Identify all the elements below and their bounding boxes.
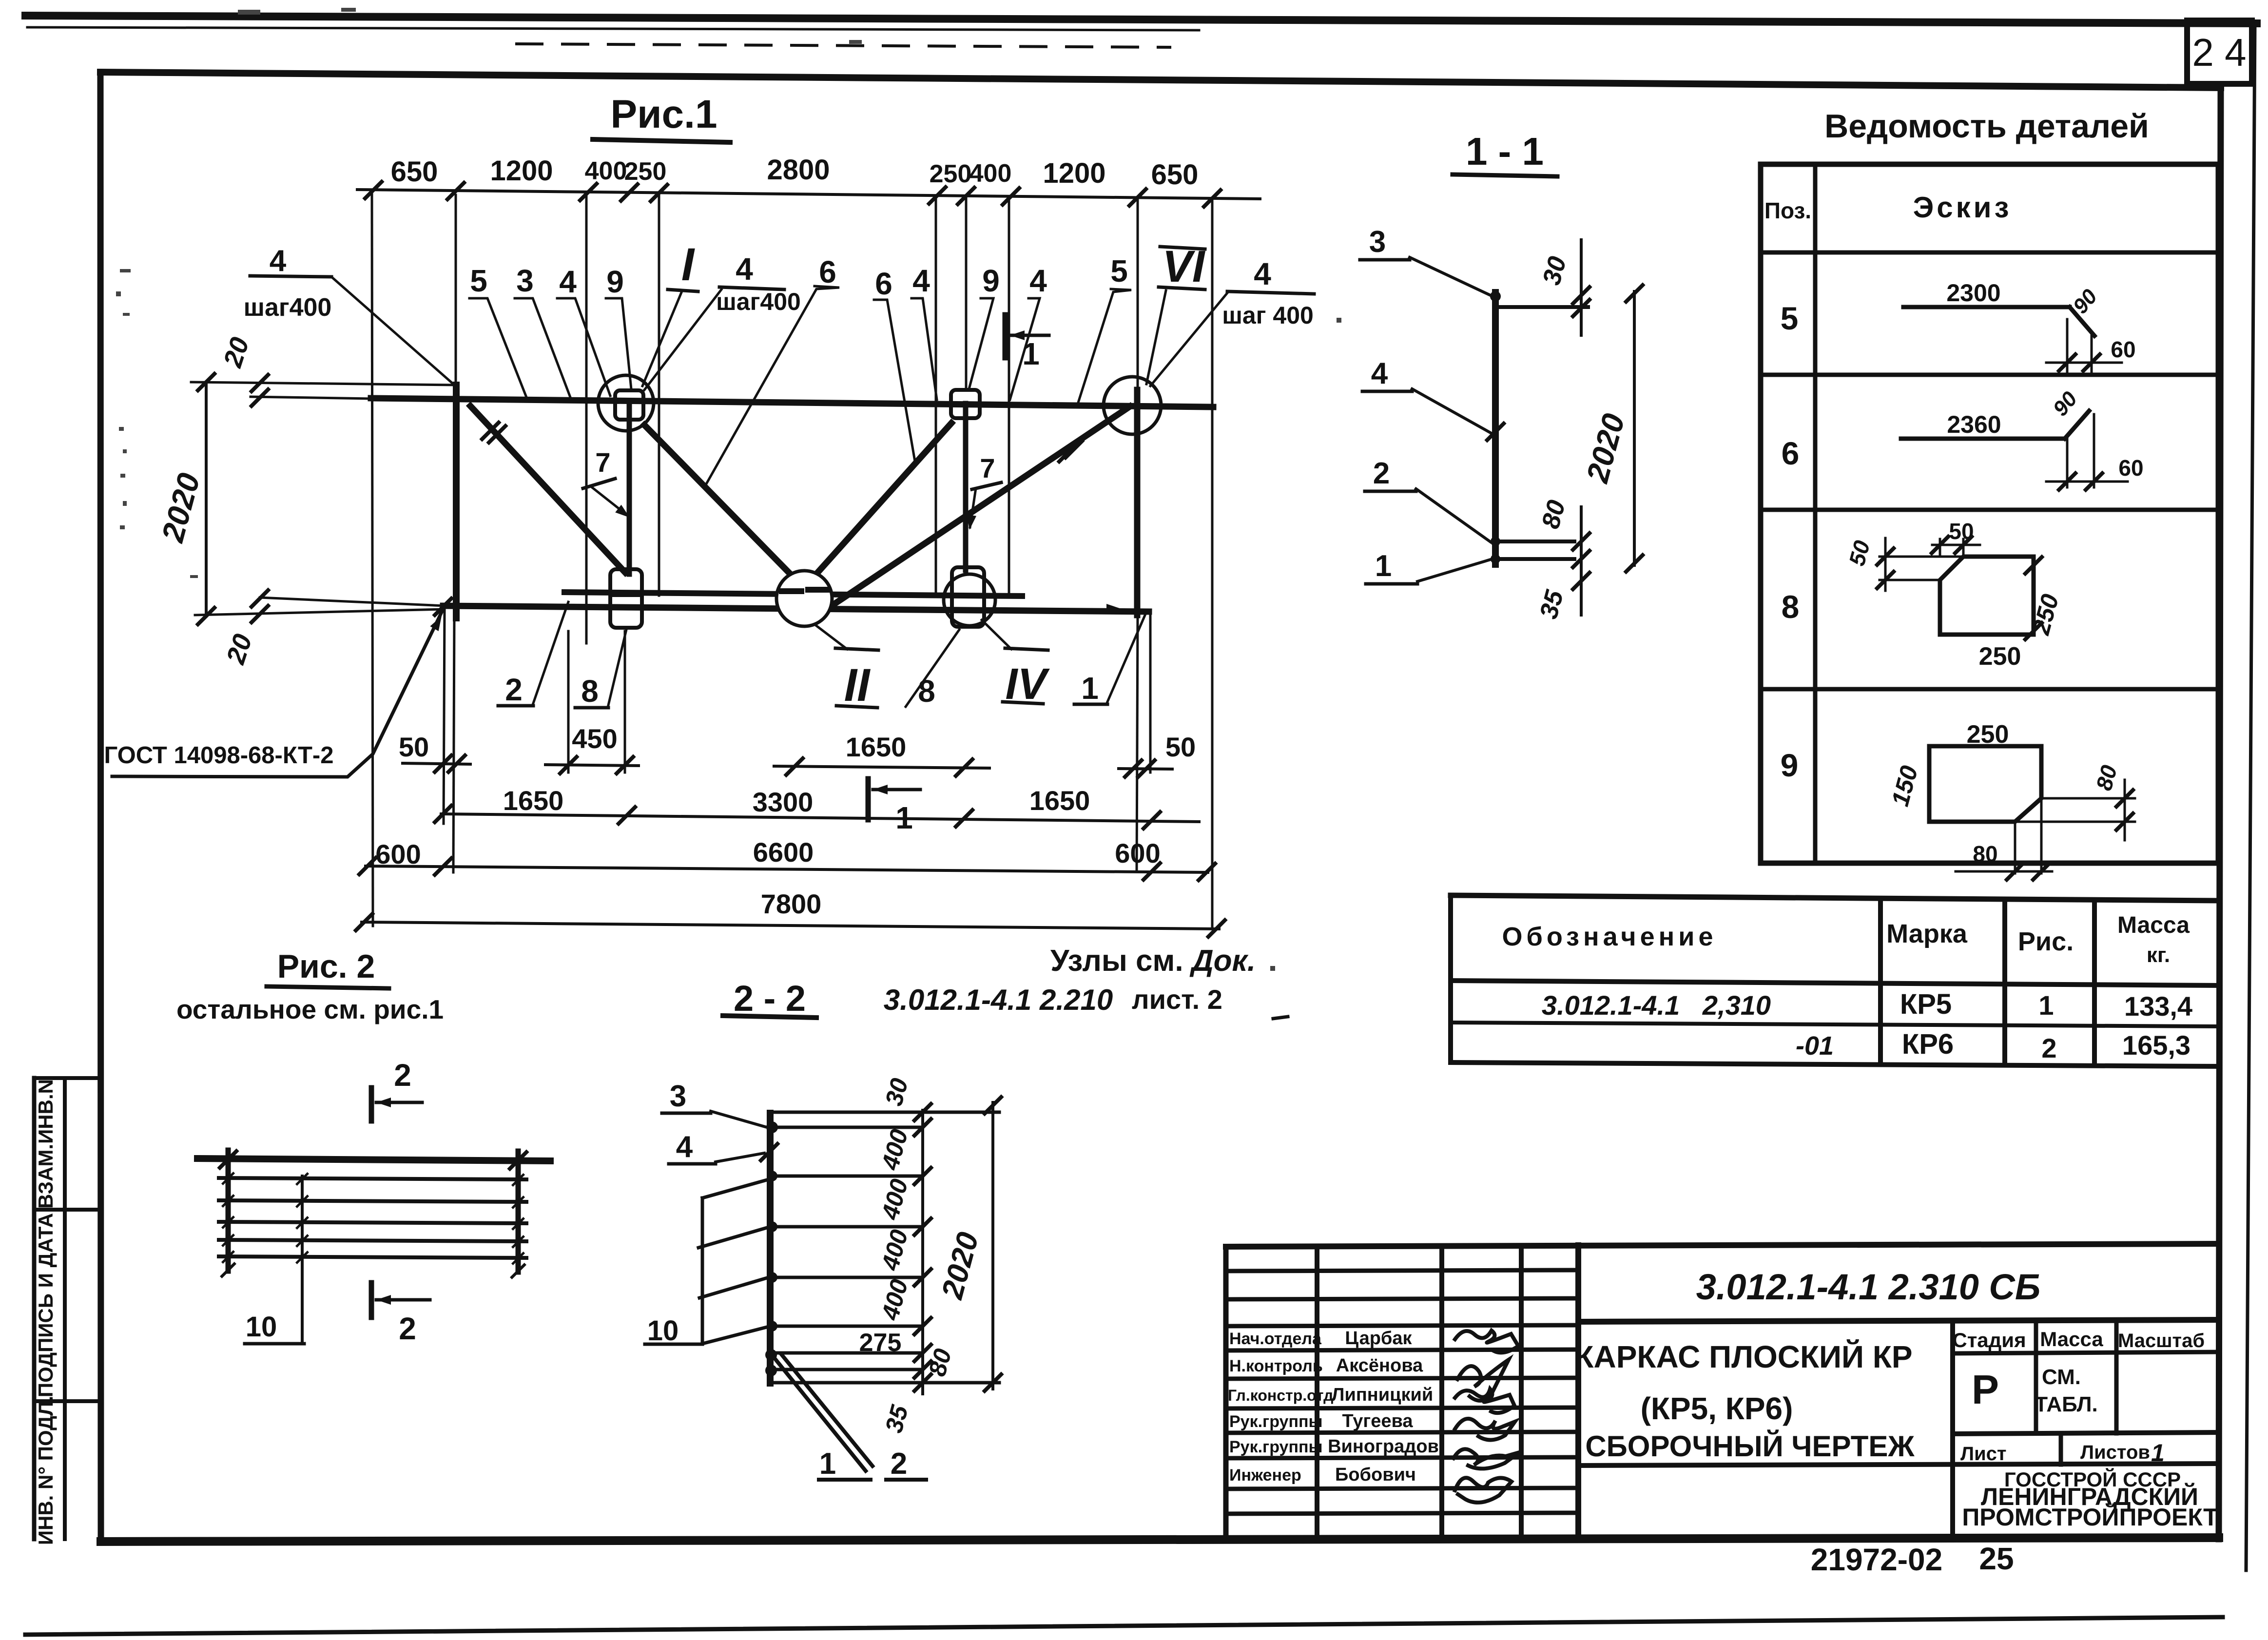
svg-text:1650: 1650: [846, 732, 907, 762]
dim row C: [366, 866, 1208, 872]
left stamp strip cell line 1: [34, 1208, 100, 1212]
leader shag400 left: [331, 277, 453, 384]
svg-text:5: 5: [1110, 253, 1128, 289]
svg-text:2300: 2300: [1946, 279, 2000, 307]
title block col a: [1315, 1247, 1319, 1539]
svg-text:2020: 2020: [1579, 410, 1631, 486]
svg-text:Р: Р: [1972, 1367, 1999, 1412]
designation table left: [1448, 895, 1453, 1062]
leader 8 right: [906, 630, 959, 707]
page top rule: [25, 16, 2257, 23]
sec2-2 wire 7: [774, 1368, 921, 1371]
svg-text:остальное см. рис.1: остальное см. рис.1: [176, 994, 444, 1024]
shag400 left label: [250, 276, 331, 277]
designation table top: [1451, 895, 2219, 901]
spigot top left: [615, 390, 643, 420]
leader I: [642, 292, 681, 386]
stage header line: [1953, 1352, 2219, 1353]
truss top chord: [371, 398, 1213, 407]
left stamp strip cell line 2: [34, 1399, 100, 1403]
svg-text:35: 35: [880, 1402, 913, 1435]
svg-text:Лист: Лист: [1960, 1443, 2007, 1465]
dim row A seg 1650: [774, 766, 989, 768]
svg-text:Масса: Масса: [2117, 912, 2190, 938]
svg-text:3: 3: [1369, 225, 1386, 259]
sec2-2 wire bottom ext: [774, 1381, 999, 1385]
underline I: [668, 289, 698, 291]
svg-text:Рук.группы: Рук.группы: [1229, 1412, 1323, 1431]
page top thin rule: [27, 27, 1199, 30]
extension line x912: [444, 608, 445, 824]
svg-text:3300: 3300: [753, 787, 814, 817]
svg-text:600: 600: [375, 839, 421, 869]
svg-text:I: I: [681, 239, 696, 290]
sec1-1 weld tick: [1487, 424, 1504, 440]
list col: [2059, 1434, 2063, 1465]
sec2-2 wire 2: [774, 1126, 921, 1129]
sec2-2 outer dim line: [991, 1102, 994, 1389]
svg-text:КАРКАС ПЛОСКИЙ КР: КАРКАС ПЛОСКИЙ КР: [1574, 1339, 1912, 1374]
svg-text:21972-02: 21972-02: [1811, 1542, 1942, 1577]
sketch pos8 plate: [1940, 557, 2034, 635]
svg-text:1: 1: [1022, 336, 1040, 371]
svg-text:ГОСТ 14098-68-КТ-2: ГОСТ 14098-68-КТ-2: [104, 742, 334, 769]
signatures: [1454, 1331, 1519, 1503]
svg-text:250: 250: [1979, 642, 2021, 671]
svg-text:133,4: 133,4: [2124, 991, 2192, 1022]
truss right end bar: [1134, 390, 1141, 615]
shag400 mid label: [719, 287, 784, 289]
svg-text:-01: -01: [1796, 1031, 1834, 1061]
stage row bottom: [1953, 1432, 2219, 1434]
svg-text:50: 50: [1949, 519, 1974, 544]
spigot top right: [951, 390, 980, 418]
svg-text:8: 8: [918, 674, 935, 709]
svg-text:7800: 7800: [761, 888, 822, 919]
fig2 section mark 2 top: [369, 1088, 374, 1121]
truss diagonal 1: [470, 406, 625, 573]
truss diagonal 3: [810, 423, 951, 581]
fig2 left bar: [226, 1150, 231, 1271]
sec1-1 outer dim 2020: [1633, 291, 1636, 565]
truss inner bar left: [627, 404, 632, 574]
svg-text:3.012.1-4.1 2,310: 3.012.1-4.1 2,310: [1542, 990, 1771, 1021]
row D ticks: [356, 914, 372, 930]
sec2-2 wire 3: [774, 1175, 921, 1178]
top dimension line: [357, 190, 1260, 199]
svg-text:4: 4: [559, 264, 577, 299]
chord dash in circle II right: [808, 587, 828, 593]
svg-text:Марка: Марка: [1886, 919, 1968, 948]
svg-text:Аксёнова: Аксёнова: [1336, 1355, 1423, 1376]
svg-text:Рис.: Рис.: [2018, 927, 2074, 956]
fig2 wire 2: [219, 1200, 526, 1202]
overline IV + leader: [1005, 648, 1048, 650]
svg-text:400: 400: [585, 157, 627, 185]
designation table row line: [1451, 1023, 2219, 1026]
sec2-2 wire 4: [774, 1225, 921, 1229]
sec1-1 bottom wires: [1499, 540, 1574, 543]
svg-text:3: 3: [516, 263, 534, 298]
svg-text:1: 1: [2151, 1439, 2165, 1466]
extension line x2070: [1008, 197, 1010, 597]
fig2 wire 4: [219, 1240, 526, 1241]
svg-text:кг.: кг.: [2147, 943, 2170, 967]
svg-text:165,3: 165,3: [2122, 1030, 2190, 1061]
svg-text:150: 150: [1886, 763, 1923, 809]
svg-text:9: 9: [606, 264, 624, 299]
node circle IV: [944, 574, 995, 626]
svg-text:30: 30: [1537, 253, 1572, 288]
spigot bottom left: [610, 569, 642, 628]
truss inner bar right: [963, 404, 969, 570]
svg-text:10: 10: [647, 1315, 679, 1347]
dim row A seg 450: [545, 765, 639, 766]
svg-text:Узлы см. Док.: Узлы см. Док.: [1050, 944, 1256, 978]
svg-text:Обозначение: Обозначение: [1502, 922, 1717, 951]
designation table bottom: [1451, 1062, 2219, 1066]
page bottom rule: [25, 1617, 2223, 1635]
svg-text:Нач.отдела: Нач.отдела: [1229, 1330, 1322, 1348]
svg-text:9: 9: [982, 263, 1000, 298]
svg-text:2: 2: [891, 1447, 907, 1481]
svg-text:400: 400: [876, 1176, 913, 1223]
truss bottom chord lower bar: [443, 606, 1149, 612]
signature roles: [1228, 1330, 1333, 1485]
svg-text:20: 20: [221, 631, 258, 668]
svg-text:Гл.констр.отд: Гл.констр.отд: [1228, 1387, 1333, 1404]
drawing frame left: [100, 72, 101, 1542]
node circle I: [598, 375, 654, 431]
svg-text:Тугеева: Тугеева: [1342, 1411, 1414, 1431]
svg-text:650: 650: [1151, 159, 1199, 191]
svg-text:ПОДПИСЬ И ДАТА: ПОДПИСЬ И ДАТА: [34, 1213, 57, 1397]
sheet number box: [2187, 20, 2252, 84]
svg-text:Рук.группы: Рук.группы: [1229, 1438, 1323, 1456]
sec2-2 bar dots: [765, 1121, 778, 1376]
extension line x1282: [624, 631, 626, 772]
pos numbers: [1781, 300, 1800, 783]
arrow at bottom chord right end: [1106, 604, 1121, 614]
svg-text:4: 4: [1371, 357, 1388, 390]
designation table col 1: [1878, 898, 1883, 1064]
svg-text:2 - 2: 2 - 2: [734, 978, 806, 1019]
extension line x763: [372, 194, 373, 926]
underline 1 + leader: [1074, 703, 1107, 706]
svg-text:Рис.1: Рис.1: [610, 92, 717, 136]
leader 6a: [704, 286, 839, 487]
labels below truss: [505, 659, 1099, 711]
svg-text:Ведомость деталей: Ведомость деталей: [1824, 108, 2149, 145]
top dim labels: [391, 154, 1199, 191]
sec2-2 bottom diagonal bar: [775, 1359, 866, 1471]
fig2 section mark 2 bottom: [369, 1283, 374, 1317]
bottom chord axis extension: [195, 609, 445, 615]
svg-text:400: 400: [969, 159, 1012, 188]
svg-text:Эскиз: Эскиз: [1913, 191, 2012, 224]
svg-text:25: 25: [1979, 1541, 2014, 1576]
chord dash in circle II left: [782, 588, 801, 594]
svg-text:250: 250: [624, 157, 667, 186]
svg-text:шаг400: шаг400: [716, 288, 801, 315]
extension line x935 lower: [453, 617, 454, 872]
underline 2 + leader: [498, 704, 533, 708]
designation table header line: [1451, 981, 2219, 985]
svg-text:4: 4: [1254, 256, 1271, 291]
svg-text:СБОРОЧНЫЙ ЧЕРТЕЖ: СБОРОЧНЫЙ ЧЕРТЕЖ: [1585, 1430, 1915, 1463]
leader 9b: [969, 298, 993, 389]
svg-text:Масштаб: Масштаб: [2118, 1330, 2205, 1351]
svg-text:250: 250: [1967, 720, 2009, 749]
svg-text:Бобович: Бобович: [1335, 1465, 1416, 1485]
top dim ticks: [365, 182, 382, 198]
svg-text:Царбак: Царбак: [1345, 1328, 1412, 1349]
truss diagonal 2: [644, 425, 804, 588]
sec1-1 dim 30: [1580, 240, 1583, 335]
title block col c: [1519, 1246, 1524, 1539]
row C ticks: [359, 858, 376, 874]
svg-text:8: 8: [1782, 589, 1800, 625]
left stamp strip divider: [63, 1078, 67, 1539]
svg-text:1: 1: [819, 1447, 836, 1481]
title block col d: [1575, 1245, 1581, 1539]
svg-text:Инженер: Инженер: [1229, 1466, 1301, 1485]
truss bottom chord upper bar: [564, 592, 1022, 596]
title rows left: [1226, 1270, 1578, 1271]
svg-text:2: 2: [2041, 1033, 2056, 1063]
leader 4b: [911, 298, 937, 400]
sketch pos6: [1901, 437, 2065, 441]
title block left: [1223, 1247, 1229, 1540]
top chord axis extension: [251, 397, 373, 399]
left stamp strip outer: [32, 1078, 37, 1539]
svg-text:4: 4: [270, 244, 287, 278]
sec2-2 wire 6: [774, 1325, 921, 1328]
extension line x2334 upper: [1137, 198, 1139, 388]
svg-text:шаг400: шаг400: [244, 293, 332, 322]
fig2 wire 1: [219, 1178, 526, 1179]
sketch pos5: [1903, 305, 2070, 309]
svg-text:2: 2: [394, 1058, 411, 1093]
svg-text:4: 4: [1029, 263, 1047, 298]
extension line x935 upper: [455, 195, 457, 386]
svg-text:2 4: 2 4: [2192, 31, 2246, 74]
extension line x2334 lower: [1137, 615, 1138, 870]
margin speckles: [116, 8, 1341, 971]
fig2 top bar: [197, 1158, 550, 1161]
sketch pos9 plate: [1929, 746, 2041, 822]
svg-text:400: 400: [876, 1276, 913, 1323]
extension line x2360: [1149, 613, 1152, 772]
node circle II: [776, 571, 832, 626]
svg-text:Поз.: Поз.: [1764, 198, 1811, 223]
svg-text:4: 4: [912, 263, 930, 298]
overline VI: [1160, 247, 1205, 249]
svg-text:КР5: КР5: [1900, 988, 1952, 1020]
sec2-2 dim labels: [876, 1075, 985, 1435]
svg-text:600: 600: [1115, 838, 1160, 868]
svg-text:шаг 400: шаг 400: [1222, 302, 1314, 329]
dim row A seg 50 left: [403, 763, 470, 764]
svg-text:1: 1: [2038, 990, 2054, 1021]
leader 9a: [606, 298, 631, 389]
svg-text:1: 1: [1375, 549, 1392, 583]
svg-text:400: 400: [876, 1126, 913, 1173]
svg-text:Масса: Масса: [2040, 1328, 2103, 1351]
svg-text:2020: 2020: [935, 1229, 986, 1303]
leader shag400 right: [1150, 293, 1227, 386]
svg-text:80: 80: [1536, 497, 1571, 532]
sec2-2 stirrup bar 10: [701, 1198, 704, 1344]
svg-text:2: 2: [505, 672, 523, 707]
svg-text:1: 1: [1081, 671, 1099, 706]
parts table header line: [1761, 251, 2218, 255]
svg-text:400: 400: [876, 1227, 913, 1273]
arrows at bottom left node: [430, 614, 446, 631]
svg-text:4: 4: [676, 1130, 693, 1164]
svg-text:7: 7: [595, 447, 610, 478]
svg-text:ИНВ. N° ПОДЛ.: ИНВ. N° ПОДЛ.: [34, 1396, 57, 1545]
designation table col 3: [2092, 900, 2097, 1065]
sec2-2 wire top: [774, 1111, 999, 1114]
extension line x1166: [567, 631, 570, 772]
svg-text:3.012.1-4.1 2.310 СБ: 3.012.1-4.1 2.310 СБ: [1696, 1267, 2041, 1307]
section mark 1 top: [1003, 315, 1008, 358]
svg-text:2360: 2360: [1947, 411, 2001, 438]
leader 3: [515, 298, 570, 397]
svg-text:2: 2: [1373, 457, 1390, 490]
spigot bottom right: [952, 567, 984, 627]
svg-text:50: 50: [399, 732, 429, 762]
svg-text:250: 250: [930, 160, 972, 188]
leader 5: [469, 298, 526, 397]
extension line x1203: [585, 195, 588, 643]
leader VI: [1146, 290, 1166, 384]
svg-text:1200: 1200: [1043, 157, 1105, 189]
svg-text:1650: 1650: [503, 785, 564, 816]
shag400 right label: [1227, 291, 1314, 294]
svg-text:ПРОМСТРОЙПРОЕКТ: ПРОМСТРОЙПРОЕКТ: [1962, 1503, 2218, 1531]
svg-text:2: 2: [399, 1311, 416, 1346]
title block top: [1226, 1244, 2219, 1247]
svg-text:60: 60: [2118, 455, 2143, 481]
fig1 title underline: [593, 139, 730, 142]
top dashed marks: [517, 44, 1170, 47]
svg-text:4: 4: [736, 251, 753, 287]
svg-text:650: 650: [391, 156, 438, 188]
leader 4c: [1010, 298, 1040, 400]
svg-text:Липницкий: Липницкий: [1332, 1385, 1433, 1405]
svg-text:450: 450: [572, 723, 617, 754]
svg-text:6: 6: [819, 254, 836, 289]
svg-text:9: 9: [1781, 747, 1799, 783]
extension line x1352: [658, 195, 660, 596]
sec1-1 main bar: [1492, 292, 1499, 564]
drawing frame right: [2219, 88, 2221, 1539]
fig2 wire 3: [219, 1222, 526, 1223]
svg-text:6: 6: [875, 266, 892, 301]
bottom offset extension line: [260, 598, 445, 606]
svg-text:Листов: Листов: [2080, 1442, 2150, 1463]
sec2-2 main bar: [767, 1113, 774, 1383]
svg-text:6: 6: [1782, 435, 1800, 471]
outer right page edge: [2246, 23, 2255, 1570]
svg-text:Виноградов: Виноградов: [1328, 1436, 1439, 1457]
leader 5b: [1078, 289, 1131, 403]
svg-text:60: 60: [2111, 337, 2135, 362]
svg-text:50: 50: [1165, 732, 1196, 762]
leader 4a: [557, 298, 610, 396]
svg-text:80: 80: [923, 1346, 957, 1379]
dim row D: [362, 922, 1219, 929]
parts table row lines: [1761, 373, 2218, 377]
left height dim line: [205, 382, 208, 616]
extension line x1982: [965, 197, 968, 390]
stage col 1: [1950, 1322, 1955, 1536]
svg-text:Рис. 2: Рис. 2: [277, 948, 375, 985]
title block col b: [1439, 1246, 1444, 1539]
node circle VI: [1104, 377, 1161, 434]
list row bottom: [1578, 1464, 2219, 1466]
sec1-1 dim 80 35: [1580, 507, 1583, 615]
svg-text:ВЗАМ.ИНВ.N: ВЗАМ.ИНВ.N: [34, 1079, 57, 1209]
weld tick on diagonal 4: [1066, 441, 1082, 458]
svg-text:50: 50: [1844, 538, 1875, 568]
svg-text:2020: 2020: [155, 469, 207, 546]
svg-text:1200: 1200: [490, 155, 553, 187]
svg-text:1 - 1: 1 - 1: [1466, 130, 1544, 173]
parts table col divider: [1813, 164, 1818, 863]
fig2 mid wire vertical: [301, 1176, 304, 1344]
svg-text:275: 275: [859, 1329, 902, 1357]
row A ticks: [435, 755, 451, 772]
sec2-2 wire 5: [774, 1276, 921, 1279]
designation table col 2: [2002, 899, 2007, 1065]
svg-text:Н.контроль: Н.контроль: [1229, 1357, 1323, 1375]
position labels above truss: [470, 239, 1271, 301]
svg-text:35: 35: [1534, 587, 1569, 622]
drawing frame top: [100, 72, 2221, 88]
svg-text:1650: 1650: [1029, 785, 1090, 816]
svg-text:3: 3: [670, 1080, 686, 1113]
svg-text:СМ.: СМ.: [2042, 1365, 2081, 1389]
svg-text:10: 10: [246, 1311, 277, 1343]
svg-text:5: 5: [470, 263, 487, 298]
parts table outer: [1761, 164, 2218, 863]
sec2-2 inner dim line: [921, 1110, 924, 1394]
truss diagonal 4: [832, 406, 1130, 606]
dim row B: [441, 814, 1199, 822]
title area line below designation: [1578, 1320, 2219, 1322]
sec1-1 top wire: [1499, 305, 1588, 309]
svg-text:90: 90: [2048, 387, 2082, 421]
drawing frame bottom: [101, 1538, 2219, 1542]
fig2 right bar: [516, 1151, 521, 1272]
svg-text:2800: 2800: [767, 154, 830, 186]
svg-text:3.012.1-4.1 2.210: 3.012.1-4.1 2.210: [884, 984, 1113, 1016]
dim row A seg 50 right: [1119, 769, 1172, 769]
svg-text:ТАБЛ.: ТАБЛ.: [2035, 1392, 2098, 1416]
bottom dim labels: [375, 723, 1196, 919]
leader 6b: [874, 300, 915, 464]
svg-text:80: 80: [2091, 762, 2122, 793]
svg-text:лист. 2: лист. 2: [1132, 984, 1222, 1015]
svg-text:5: 5: [1781, 300, 1799, 336]
svg-text:8: 8: [581, 674, 599, 709]
sec2-2 wire 275: [774, 1351, 921, 1355]
weld tick on diagonal 1: [489, 426, 505, 443]
svg-text:7: 7: [980, 453, 995, 483]
